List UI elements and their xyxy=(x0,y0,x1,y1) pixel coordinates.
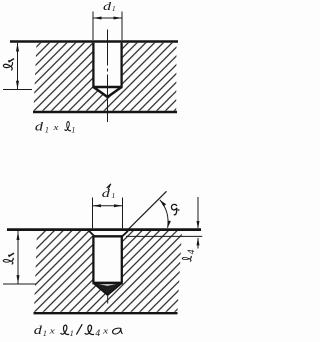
svg-text:1: 1 xyxy=(112,191,116,200)
svg-text:1: 1 xyxy=(112,4,116,13)
svg-text:x: x xyxy=(52,123,59,132)
svg-text:1: 1 xyxy=(43,329,47,338)
svg-text:1: 1 xyxy=(71,126,75,135)
svg-text:d: d xyxy=(35,120,44,134)
svg-text:x: x xyxy=(102,327,109,336)
svg-text:d: d xyxy=(103,1,112,13)
svg-text:4: 4 xyxy=(95,329,100,339)
svg-text:4: 4 xyxy=(187,249,197,254)
svg-text:d: d xyxy=(34,323,43,337)
svg-text:1: 1 xyxy=(70,329,74,338)
svg-text:d: d xyxy=(102,188,111,200)
svg-text:x: x xyxy=(49,327,56,336)
svg-text:1: 1 xyxy=(45,126,49,135)
